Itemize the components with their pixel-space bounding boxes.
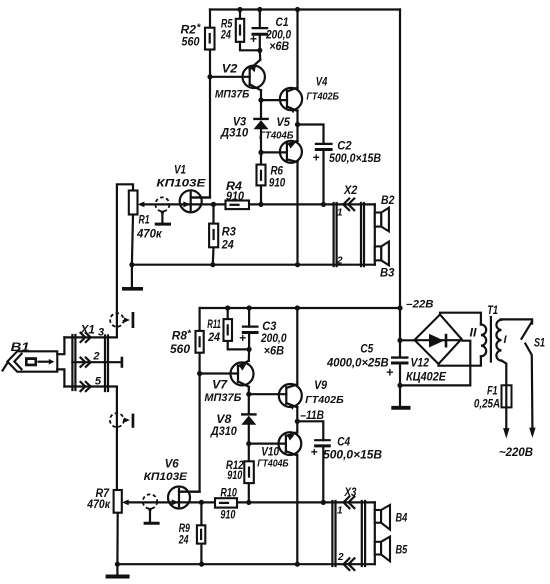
svg-text:КП103Е: КП103Е — [144, 471, 188, 483]
wire B1 top lead to row 3 — [57, 337, 64, 354]
svg-text:3: 3 — [98, 327, 104, 339]
svg-text:C5: C5 — [360, 344, 373, 356]
svg-text:200,0: 200,0 — [260, 333, 287, 345]
svg-text:R9: R9 — [179, 523, 191, 535]
wire main feedback row — [141, 203, 375, 205]
svg-text:4000,0×25В: 4000,0×25В — [326, 358, 389, 370]
svg-text:R11: R11 — [207, 319, 221, 331]
svg-text:V9: V9 — [314, 380, 327, 392]
wire X1 row 5 and shield line down — [64, 387, 117, 491]
wire output node to C2 top — [298, 125, 324, 144]
wire bridge left lead — [400, 339, 415, 341]
resistor R12 — [226, 460, 254, 483]
svg-text:+: + — [311, 445, 318, 459]
resistor R8 — [170, 329, 204, 357]
wire node V2-V4 base lead — [261, 99, 287, 101]
wire node V7-V9 base lead — [249, 393, 286, 395]
wire output node column V9/V10 — [296, 407, 298, 433]
speaker B4 — [375, 505, 408, 530]
svg-text:V12: V12 — [411, 358, 430, 370]
wire X1 row 3 — [64, 336, 117, 338]
svg-text:2: 2 — [92, 351, 99, 363]
wire X2 to speakers column — [374, 204, 376, 264]
wire V3 to V5 node column — [260, 129, 262, 165]
svg-text:F1: F1 — [487, 386, 498, 398]
svg-text:–11В: –11В — [300, 410, 324, 422]
svg-text:R10: R10 — [220, 488, 237, 500]
wire V2 collector to node — [259, 50, 262, 60]
wire R12 bottom lead — [248, 483, 250, 502]
svg-text:ГТ404Б: ГТ404Б — [259, 130, 294, 142]
svg-text:V1: V1 — [174, 165, 186, 177]
svg-text:Д310: Д310 — [210, 426, 237, 438]
svg-text:S1: S1 — [534, 338, 545, 350]
wire R11 column — [228, 308, 249, 349]
svg-text:Д310: Д310 — [220, 128, 249, 140]
wire V8 to V10 node column — [248, 424, 250, 461]
svg-text:R8: R8 — [172, 331, 188, 343]
wire right frame vertical — [399, 10, 401, 358]
svg-text:В1: В1 — [11, 342, 30, 354]
wire V2 base lead — [210, 76, 250, 78]
wire channel2 supply rail — [200, 307, 400, 309]
wire C1 column lower — [259, 35, 261, 51]
transistor V7 — [204, 361, 253, 404]
wire winding II bottom to bridge — [439, 356, 481, 365]
capacitor C3 — [239, 321, 287, 358]
svg-text:910: 910 — [220, 510, 235, 522]
svg-text:560: 560 — [170, 344, 191, 356]
resistor R5 — [220, 19, 244, 42]
svg-text:R6: R6 — [271, 166, 284, 178]
ground under bridge — [399, 385, 401, 406]
svg-text:V8: V8 — [216, 414, 232, 426]
wire bridge top to winding II — [440, 313, 481, 325]
svg-text:200,0: 200,0 — [265, 30, 291, 42]
wire R1 bottom lead — [132, 215, 133, 265]
svg-text:2: 2 — [336, 256, 343, 267]
svg-text:X1: X1 — [80, 325, 95, 337]
switch S1 — [522, 322, 546, 438]
wire V9 collector column — [296, 308, 298, 385]
ground under R7 — [116, 564, 118, 574]
junction dots channel 2 — [115, 305, 403, 566]
svg-text:–22В: –22В — [406, 299, 433, 311]
svg-text:V7: V7 — [212, 380, 228, 392]
svg-text:R3: R3 — [222, 227, 237, 239]
svg-text:910: 910 — [226, 191, 245, 203]
wire V7 base lead — [200, 372, 238, 374]
svg-text:560: 560 — [182, 37, 201, 49]
svg-text:1: 1 — [337, 208, 343, 219]
capacitor C5 — [326, 344, 408, 380]
svg-text:В4: В4 — [396, 513, 408, 525]
svg-text:+: + — [239, 331, 246, 345]
wire R1 top lead to shield line — [117, 184, 133, 337]
svg-text:C3: C3 — [262, 321, 277, 333]
transistor V9 — [279, 380, 344, 410]
svg-text:КП103Е: КП103Е — [156, 178, 206, 190]
potentiometer R1 — [129, 191, 163, 241]
svg-text:24: 24 — [178, 535, 189, 547]
svg-text:V2: V2 — [222, 64, 238, 76]
svg-text:В3: В3 — [380, 268, 395, 280]
svg-text:T1: T1 — [487, 305, 498, 317]
svg-text:2: 2 — [337, 552, 344, 563]
wire C1 column upper — [259, 10, 261, 29]
wire bridge right to C5 bottom node — [400, 339, 470, 385]
svg-text:X2: X2 — [343, 185, 358, 197]
wire V10 base lead — [249, 443, 286, 445]
wire V10 collector column — [296, 455, 298, 564]
potentiometer R7 — [86, 488, 128, 513]
chassis bar row 2 end — [121, 357, 124, 368]
wire channel2 bottom rail — [117, 563, 374, 565]
wire R7 bottom lead — [116, 513, 118, 565]
svg-text:X3: X3 — [344, 487, 357, 499]
svg-text:~220В: ~220В — [499, 445, 533, 459]
svg-text:470к: 470к — [136, 229, 163, 241]
wire C3 column lower — [248, 333, 250, 349]
svg-text:×6В: ×6В — [269, 41, 289, 53]
wire channel1 bottom rail — [132, 264, 375, 266]
resistor R11 — [207, 319, 232, 344]
transistor V10 — [257, 432, 301, 469]
svg-text:V5: V5 — [276, 117, 290, 129]
svg-text:C1: C1 — [276, 17, 289, 29]
svg-text:1: 1 — [337, 506, 343, 517]
wire output node column V4/V5 — [296, 111, 298, 142]
svg-text:24: 24 — [207, 332, 220, 344]
junction dots channel 1 — [129, 7, 326, 267]
capacitor C2 — [313, 141, 382, 166]
input head B1 — [3, 342, 58, 372]
wire main feedback row channel2 — [126, 501, 375, 503]
speaker B2 — [375, 195, 395, 231]
svg-text:470к: 470к — [86, 499, 111, 511]
svg-text:R1: R1 — [139, 215, 150, 227]
wire V5 collector column — [296, 162, 298, 265]
svg-text:ГТ402Б: ГТ402Б — [306, 91, 339, 103]
connector X1 — [72, 325, 108, 392]
svg-text:+: + — [313, 151, 320, 165]
wire X3 to speakers column — [374, 502, 376, 564]
wire R3 column — [212, 204, 215, 264]
wire R2 column / V1 drain — [191, 10, 210, 198]
svg-text:+: + — [250, 32, 257, 46]
wire R6 bottom lead — [260, 185, 262, 204]
wire C3 column upper — [248, 308, 250, 327]
svg-text:V4: V4 — [316, 77, 328, 89]
speaker B5 — [375, 537, 408, 562]
svg-text:C2: C2 — [337, 141, 352, 153]
FET V6 — [144, 459, 200, 509]
resistor R9 — [178, 523, 205, 547]
transformer T1 core — [490, 317, 492, 362]
svg-text:500,0×15В: 500,0×15В — [323, 450, 382, 462]
wire B1 bottom lead to row 5 — [57, 369, 64, 386]
wire right frame below C5 — [399, 363, 401, 385]
FET V1 — [156, 165, 210, 213]
wire X1 row 2 shield — [72, 361, 121, 363]
capacitor C4 — [311, 437, 383, 462]
svg-text:×6В: ×6В — [264, 346, 284, 358]
wire V7 emitter column to V8 — [248, 387, 250, 413]
resistor R6 — [257, 165, 286, 190]
shield circle upper input — [110, 312, 134, 328]
svg-text:II: II — [470, 328, 478, 340]
ground under R1 — [131, 265, 133, 287]
diode V3 — [220, 117, 269, 140]
svg-text:910: 910 — [269, 178, 286, 190]
svg-text:V6: V6 — [165, 459, 180, 471]
shield circle at V6 gate — [143, 494, 160, 525]
svg-text:C4: C4 — [337, 437, 350, 449]
transistor V5 — [259, 117, 302, 163]
svg-text:ГТ402Б: ГТ402Б — [305, 394, 344, 406]
svg-text:5: 5 — [95, 376, 102, 388]
svg-text:ГТ404Б: ГТ404Б — [257, 458, 289, 470]
wire V5 base lead — [261, 151, 287, 153]
svg-text:R2: R2 — [181, 25, 197, 37]
diode V8 — [210, 413, 257, 438]
shield circle lower input — [110, 413, 134, 428]
wire C4 bottom lead — [322, 447, 324, 502]
svg-text:КЦ402Е: КЦ402Е — [406, 372, 446, 384]
capacitor C1 — [250, 17, 292, 53]
wire V4 collector column — [296, 10, 298, 89]
resistor R3 — [209, 224, 236, 252]
svg-text:МП37Б: МП37Б — [215, 89, 250, 101]
svg-text:0,25А: 0,25А — [474, 399, 500, 411]
junction dots power — [397, 338, 402, 388]
svg-text:В2: В2 — [381, 195, 395, 207]
wire top supply rail — [210, 8, 400, 10]
svg-text:МП37Б: МП37Б — [204, 392, 241, 404]
wire R8 column / V6 drain — [179, 308, 200, 492]
winding II of T1 — [481, 325, 486, 357]
svg-text:24: 24 — [221, 240, 234, 252]
resistor R10 — [215, 488, 237, 522]
fuse F1 — [474, 385, 512, 438]
wire V2 emitter column to V3 — [260, 90, 262, 118]
winding I of T1 — [470, 305, 533, 385]
transistor V4 — [280, 77, 339, 114]
connector X2 — [334, 185, 364, 267]
wire R9 column — [200, 502, 202, 564]
wire R5 column — [240, 10, 260, 51]
speaker B3 — [375, 242, 395, 280]
svg-text:В5: В5 — [396, 545, 408, 557]
svg-text:24: 24 — [220, 30, 231, 42]
svg-text:910: 910 — [227, 470, 242, 482]
wire C2 bottom lead — [322, 151, 324, 205]
connector X3 — [332, 487, 365, 570]
wire V7 collector to node — [248, 349, 251, 360]
transistor V2 — [215, 60, 265, 101]
resistor R2 — [181, 23, 215, 50]
rectifier bridge V12 — [406, 315, 462, 384]
svg-text:500,0×15В: 500,0×15В — [329, 153, 381, 165]
shield circle at V1 gate — [155, 197, 171, 225]
resistor R4 — [226, 181, 250, 209]
wire output node to C4 top — [297, 421, 323, 440]
